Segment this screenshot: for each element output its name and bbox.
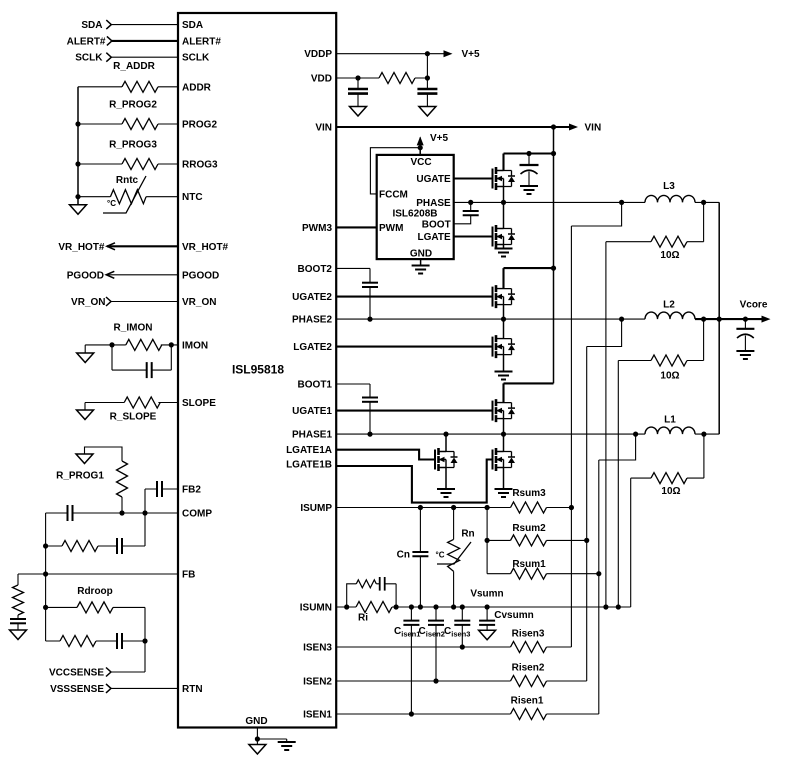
- resistor compensation Rc: [62, 541, 98, 552]
- svg-text:Cvsumn: Cvsumn: [494, 610, 533, 621]
- wire FB2: [145, 489, 178, 513]
- node junction phase2/FETs: [501, 317, 506, 322]
- resistor R_PROG2: [122, 119, 158, 130]
- arrow PGOOD: [106, 271, 114, 278]
- svg-text:ISUMP: ISUMP: [300, 503, 332, 514]
- wire ISUMP: [336, 507, 511, 509]
- connector VR_ON chevron: [106, 297, 111, 306]
- node junction phase3/FETs: [501, 200, 506, 205]
- svg-text:R_IMON: R_IMON: [114, 323, 153, 334]
- wire ISEN3: [336, 646, 571, 648]
- svg-text:UGATE1: UGATE1: [292, 406, 332, 417]
- wire ISEN2: [336, 680, 587, 682]
- node junction L2 input tap: [619, 317, 624, 322]
- capacitor Vcore bulk: [744, 319, 746, 329]
- transistor Q1B low-side B: [493, 448, 516, 471]
- wire phase1 sense tap: [599, 434, 636, 714]
- svg-text:SCLK: SCLK: [182, 53, 210, 64]
- node junction Vcore rail: [717, 317, 722, 322]
- svg-text:RTN: RTN: [182, 684, 203, 695]
- resistor 10ohm phase3: [606, 202, 704, 241]
- wire Rsum3 to phase3 sense: [547, 507, 572, 509]
- node junction IMON left: [109, 342, 114, 347]
- svg-text:ADDR: ADDR: [182, 82, 212, 93]
- node junction Vsumn/Cn: [418, 604, 423, 609]
- svg-text:GND: GND: [245, 716, 267, 727]
- svg-text:ISEN2: ISEN2: [303, 677, 332, 688]
- svg-text:°C: °C: [436, 551, 445, 560]
- resistor Rsum3: [511, 502, 547, 513]
- svg-text:GND: GND: [410, 249, 432, 260]
- wire PGOOD output: [106, 274, 178, 276]
- wire VR_ON input: [111, 301, 178, 303]
- wire Q2L drain to phase2: [503, 319, 505, 339]
- transistor Q2L phase2 low-side: [493, 335, 516, 358]
- svg-text:VR_HOT#: VR_HOT#: [182, 242, 229, 253]
- wire IMON net: [85, 345, 178, 353]
- wire VSSSENSE input to RTN: [111, 687, 178, 689]
- connector ALERT# input chevron: [107, 36, 112, 45]
- svg-text:L2: L2: [663, 300, 675, 311]
- node junction ISEN3/Cisen3: [460, 644, 465, 649]
- ground rail triangle: [77, 197, 79, 205]
- svg-text:PHASE2: PHASE2: [292, 315, 332, 326]
- capacitor bootstrap U2: [463, 211, 479, 215]
- svg-text:UGATE: UGATE: [416, 174, 451, 185]
- ground VDD right cap triangle: [419, 107, 436, 117]
- wire Q3H source to phase3: [503, 187, 505, 203]
- svg-text:10Ω: 10Ω: [660, 371, 679, 382]
- transistor Q3L phase3 low-side: [493, 225, 516, 248]
- resistor 10ohm phase1: [631, 434, 704, 478]
- svg-text:IMON: IMON: [182, 340, 208, 351]
- ground Q2L earth: [495, 372, 513, 380]
- svg-text:NTC: NTC: [182, 192, 203, 203]
- IC U1 ISL95818: [178, 13, 336, 728]
- wire Q2H drain to VIN: [504, 268, 554, 289]
- svg-text:VCC: VCC: [410, 157, 431, 168]
- node junction L3 output: [701, 200, 706, 205]
- svg-text:R_PROG3: R_PROG3: [109, 140, 157, 151]
- node junction VDD left: [355, 75, 360, 80]
- capacitor Cisen2: [435, 607, 437, 681]
- svg-text:Cn: Cn: [397, 550, 410, 561]
- resistor R_PROG1: [117, 461, 128, 497]
- wire Q1B drain to phase1: [503, 434, 505, 451]
- resistor Risen2: [511, 676, 547, 687]
- svg-text:SLOPE: SLOPE: [182, 398, 216, 409]
- node junction Rn/ISUMP: [451, 505, 456, 510]
- svg-text:COMP: COMP: [182, 509, 212, 520]
- wire VCCSENSE input: [111, 671, 145, 673]
- wire RROG3 to R_PROG3: [78, 163, 178, 165]
- svg-text:R_SLOPE: R_SLOPE: [110, 412, 157, 423]
- resistor Ri: [356, 602, 392, 613]
- node junction ISEN1/Cisen1: [409, 711, 414, 716]
- svg-text:ISL6208B: ISL6208B: [392, 208, 437, 219]
- capacitor bootstrap phase1: [362, 398, 378, 402]
- wire U2 GND stub: [420, 259, 422, 265]
- transistor Q1A low-side A: [435, 448, 458, 471]
- wire SCLK input: [111, 56, 178, 58]
- ground GND triangle: [249, 745, 266, 755]
- svg-text:Vsumn: Vsumn: [470, 589, 503, 600]
- capacitor COMP Cc1: [68, 505, 73, 521]
- node junction VIN rail: [551, 124, 556, 129]
- op-amp U2 ISL6208B driver box: [377, 155, 454, 259]
- svg-text:Ri: Ri: [358, 613, 368, 624]
- wire UGATE2: [336, 296, 493, 298]
- node junction R_PROG1/COMP: [119, 510, 124, 515]
- node junction branch/ISUMP: [485, 505, 490, 510]
- svg-text:LGATE1B: LGATE1B: [286, 460, 332, 471]
- thermistor Rn: [453, 508, 455, 608]
- capacitor droop branch2: [117, 633, 122, 649]
- droop branch2 R-C: [46, 640, 145, 642]
- wire Rdroop branch: [46, 607, 145, 672]
- ground R_PROG1 triangle: [76, 454, 93, 464]
- svg-text:VR_HOT#: VR_HOT#: [58, 242, 105, 253]
- svg-text:BOOT: BOOT: [422, 219, 451, 230]
- svg-text:R_PROG2: R_PROG2: [109, 100, 157, 111]
- compensation branch R-C on COMP: [46, 513, 145, 546]
- ISUMN parallel R-C branch: [347, 584, 396, 607]
- node junction Vsumn/Cvsumn: [485, 604, 490, 609]
- wire Q1A drain to phase1: [445, 434, 447, 451]
- wire PWM3: [336, 226, 377, 228]
- wire phase3 sense tap: [571, 202, 621, 647]
- node junction Vsumn/Cisen1: [409, 604, 414, 609]
- node junction FCCM/VCC: [418, 145, 423, 150]
- svg-text:PWM: PWM: [379, 223, 403, 234]
- transistor Q2H phase2 high-side: [493, 285, 516, 308]
- wire BOOT2: [336, 268, 370, 319]
- ground Vcore cap earth: [736, 351, 754, 359]
- svg-text:Rsum2: Rsum2: [512, 523, 546, 534]
- capacitor ISUMN branch: [380, 577, 385, 591]
- node junction L3 input tap: [619, 200, 624, 205]
- wire Vcore rail vertical: [718, 202, 720, 434]
- wire ADDR to R_ADDR: [78, 86, 178, 88]
- wire 10ohm1 to Vsumn vertical: [630, 478, 632, 607]
- svg-text:FB: FB: [182, 570, 195, 581]
- svg-text:VDDP: VDDP: [304, 49, 332, 60]
- ground Q1A earth: [437, 489, 455, 497]
- node junction Rsum3/sense3: [569, 505, 574, 510]
- wire Q3H drain to VIN: [504, 154, 554, 171]
- thermistor Rntc: [110, 190, 146, 204]
- svg-text:FB2: FB2: [182, 485, 201, 496]
- svg-text:VIN: VIN: [315, 123, 332, 134]
- capacitor IMON filter: [112, 345, 171, 370]
- node junction branch2 right: [142, 638, 147, 643]
- node junction Ri branch right: [394, 604, 399, 609]
- wire Q2H source to phase2: [503, 305, 505, 320]
- wire PHASE3 node: [454, 201, 645, 203]
- wire R_PROG1 top to ground: [85, 447, 123, 461]
- wire Q1B source to ground: [503, 468, 505, 489]
- svg-text:BOOT2: BOOT2: [298, 264, 333, 275]
- svg-text:RROG3: RROG3: [182, 160, 218, 171]
- wire LGATE1A: [336, 450, 435, 460]
- node junction comp branch left: [43, 543, 48, 548]
- wire 10ohm2 to Vsumn vertical: [617, 361, 619, 608]
- svg-text:Risen3: Risen3: [512, 629, 545, 640]
- wire LGATE1B: [336, 460, 493, 503]
- node junction Vsumn/Cisen3: [460, 604, 465, 609]
- wire SDA input: [111, 24, 178, 26]
- node junction Vsumn/10ohm2: [616, 604, 621, 609]
- resistor R_PROG3: [122, 159, 158, 170]
- svg-text:L3: L3: [663, 181, 675, 192]
- svg-text:10Ω: 10Ω: [661, 486, 680, 497]
- svg-text:VR_ON: VR_ON: [71, 297, 105, 308]
- node junction boot2/phase2: [367, 317, 372, 322]
- resistor R_IMON: [126, 339, 162, 350]
- wire Vcore output: [695, 318, 763, 320]
- capacitor VDD right: [417, 89, 437, 94]
- resistor Risen1: [511, 709, 547, 720]
- wire ISEN1: [336, 713, 599, 715]
- wire Q1A source to ground: [445, 468, 447, 489]
- ground GND earth: [278, 742, 296, 750]
- resistor R_SLOPE: [124, 397, 160, 408]
- wire PHASE2 node: [336, 318, 645, 320]
- svg-text:VSSSENSE: VSSSENSE: [50, 684, 104, 695]
- svg-text:PGOOD: PGOOD: [67, 270, 104, 281]
- svg-text:10Ω: 10Ω: [660, 250, 679, 261]
- resistor Rsum1: [487, 573, 599, 575]
- node junction VDD right: [425, 75, 430, 80]
- svg-text:VIN: VIN: [585, 123, 602, 134]
- wire PROG2 to R_PROG2: [78, 123, 178, 125]
- resistor FB divider: [13, 585, 24, 615]
- connector VCCSENSE chevron: [106, 668, 111, 677]
- svg-text:Rdroop: Rdroop: [77, 586, 113, 597]
- node junction branch/Rsum2: [485, 538, 490, 543]
- IC U1 right pin name labels: [286, 49, 332, 720]
- arrow V+5 up: [417, 136, 424, 145]
- wire VR_HOT# output: [107, 245, 178, 247]
- wire VIN: [336, 126, 570, 128]
- capacitor compensation Cc2: [117, 538, 122, 554]
- node junction rail/NTC: [75, 194, 80, 199]
- resistor VDD filter: [379, 73, 415, 84]
- ground VIN cap earth: [520, 186, 538, 194]
- resistor Rsum2: [487, 539, 587, 541]
- connector SDA input chevron: [106, 20, 111, 29]
- svg-text:LGATE: LGATE: [418, 232, 451, 243]
- svg-text:SDA: SDA: [182, 20, 203, 31]
- svg-text:VR_ON: VR_ON: [182, 297, 216, 308]
- wire GND bottom stub: [257, 728, 286, 745]
- node junction boot1/phase1: [367, 432, 372, 437]
- wire L3 output: [695, 201, 719, 203]
- connector VSSSENSE chevron: [106, 684, 111, 693]
- svg-text:LGATE2: LGATE2: [293, 342, 332, 353]
- wire L1 output: [695, 433, 719, 435]
- svg-text:V+5: V+5: [430, 133, 449, 144]
- capacitor FB2: [157, 481, 162, 497]
- wire NTC to Rntc: [78, 196, 178, 198]
- wire UGATE1: [336, 410, 493, 412]
- node junction Rsum1/sense1: [596, 571, 601, 576]
- node junction Vsumn/10ohm3: [603, 604, 608, 609]
- wire VDD: [336, 54, 427, 89]
- wire ISUMN / Vsumn: [336, 606, 631, 608]
- ground U2 earth: [412, 266, 430, 274]
- svg-text:VCCSENSE: VCCSENSE: [49, 668, 104, 679]
- wire VDDP to V+5: [336, 53, 445, 55]
- wire U2 BOOT to bootstrap cap: [454, 202, 471, 223]
- arrow VIN: [569, 124, 578, 131]
- node junction VDDP/VDD filter: [425, 51, 430, 56]
- node junction L1 input tap: [633, 432, 638, 437]
- wire FCCM tie to VCC: [370, 148, 420, 194]
- svg-text:Rntc: Rntc: [116, 175, 139, 186]
- wire R_PROG1 bottom to COMP: [121, 497, 123, 513]
- capacitor bootstrap phase2: [362, 283, 378, 287]
- node junction ISEN2/Cisen2: [433, 678, 438, 683]
- inductor L3: [645, 195, 695, 202]
- wire Q3L drain to phase3: [503, 202, 505, 228]
- wire U2 UGATE to Q3H gate: [454, 177, 493, 179]
- svg-text:SCLK: SCLK: [75, 53, 103, 64]
- svg-text:ALERT#: ALERT#: [182, 36, 221, 47]
- resistor Risen3: [511, 642, 547, 653]
- svg-text:R_ADDR: R_ADDR: [113, 61, 155, 72]
- capacitor VIN bulk phase3: [528, 154, 530, 166]
- node junction VIN rail drain3: [551, 151, 556, 156]
- node junction L1 output: [701, 432, 706, 437]
- connector SCLK input chevron: [106, 53, 111, 62]
- node junction phase1/Q1H: [501, 432, 506, 437]
- wire FB: [18, 574, 178, 585]
- wire COMP: [46, 513, 178, 641]
- node junction L2 output: [701, 317, 706, 322]
- node junction VIN rail drain2: [551, 266, 556, 271]
- node junction Q3H drain cap: [526, 151, 531, 156]
- capacitor Cvsumn: [486, 607, 488, 630]
- wire PHASE1 node: [336, 433, 645, 435]
- ground SLOPE triangle: [77, 410, 94, 420]
- node junction Rsum2/sense2: [584, 538, 589, 543]
- wire U2 LGATE to Q3L gate: [454, 235, 493, 237]
- wire 10ohm3 to Vsumn vertical: [605, 242, 607, 607]
- arrow Vcore: [762, 316, 771, 323]
- wire VIN vertical rail: [553, 127, 555, 383]
- svg-text:FCCM: FCCM: [379, 189, 408, 200]
- svg-text:LGATE1A: LGATE1A: [286, 445, 332, 456]
- wire BOOT1: [336, 384, 370, 434]
- svg-text:PGOOD: PGOOD: [182, 270, 219, 281]
- svg-text:ISEN1: ISEN1: [303, 710, 332, 721]
- node junction GND: [255, 736, 260, 741]
- svg-text:BOOT1: BOOT1: [298, 380, 333, 391]
- node junction boot cap/phase3: [468, 200, 473, 205]
- ground FB triangle: [10, 630, 27, 640]
- node junction Ri branch left: [344, 604, 349, 609]
- resistor 10ohm phase2: [618, 319, 703, 360]
- ground VDD left cap triangle: [350, 107, 367, 117]
- svg-text:°C: °C: [107, 199, 116, 208]
- resistor droop branch2: [60, 636, 96, 647]
- svg-text:PHASE1: PHASE1: [292, 430, 332, 441]
- svg-text:R_PROG1: R_PROG1: [56, 471, 104, 482]
- IC U1 left pin name labels: [182, 20, 229, 695]
- svg-text:UGATE2: UGATE2: [292, 292, 332, 303]
- wire Rsum2/Rsum1 branch vertical: [486, 508, 488, 574]
- wire left pull-down rail: [77, 87, 79, 197]
- node junction rail/PROG2: [75, 121, 80, 126]
- svg-text:ISEN3: ISEN3: [303, 643, 332, 654]
- ground IMON triangle: [77, 353, 94, 363]
- resistor ISUMN branch: [356, 580, 376, 588]
- node junction phase1/Q1A: [443, 432, 448, 437]
- capacitor FB to ground: [17, 615, 19, 619]
- inductor L1: [645, 427, 695, 434]
- node junction FB2/COMP: [142, 510, 147, 515]
- capacitor Cisen1: [410, 607, 412, 714]
- node junction rail/RROG3: [75, 161, 80, 166]
- svg-text:ISUMN: ISUMN: [300, 603, 332, 614]
- node junction Rdroop left: [43, 605, 48, 610]
- ground Q1B earth: [495, 489, 513, 497]
- svg-text:V+5: V+5: [462, 49, 481, 60]
- svg-text:Rn: Rn: [461, 529, 474, 540]
- arrow V+5 VDDP: [444, 50, 453, 57]
- arrow VR_HOT#: [107, 243, 115, 250]
- capacitor Cisen3: [461, 607, 463, 647]
- node junction FB/rail: [43, 571, 48, 576]
- svg-text:ALERT#: ALERT#: [67, 36, 106, 47]
- resistor Rdroop: [77, 602, 113, 613]
- ground Q3L earth: [495, 249, 513, 257]
- svg-text:L1: L1: [664, 415, 676, 426]
- transistor Q1H phase1 high-side: [493, 399, 516, 422]
- capacitor VDD left: [357, 78, 359, 89]
- node junction IMON right: [169, 342, 174, 347]
- wire Q1H drain to VIN: [504, 383, 554, 402]
- wire U2 VCC to V+5: [419, 138, 421, 155]
- ground Cvsumn triangle: [479, 630, 496, 640]
- svg-text:Rsum3: Rsum3: [512, 488, 546, 499]
- node junction Vsumn/Cisen2: [433, 604, 438, 609]
- node junction Vsumn/Rn: [451, 604, 456, 609]
- svg-text:Vcore: Vcore: [740, 300, 768, 311]
- transistor Q3H phase3 high-side: [493, 167, 516, 190]
- wire LGATE2: [336, 346, 493, 348]
- inductor L2: [645, 312, 695, 319]
- capacitor Cn: [419, 508, 421, 608]
- wire Q3L source to ground: [503, 245, 505, 249]
- svg-text:PWM3: PWM3: [302, 223, 332, 234]
- svg-text:SDA: SDA: [81, 20, 102, 31]
- wire ALERT# input: [112, 40, 178, 42]
- node junction Cn/ISUMP: [418, 505, 423, 510]
- node junction Vcore cap tap: [743, 317, 748, 322]
- wire Q2L source to ground: [503, 355, 505, 371]
- wire SLOPE net: [85, 403, 178, 411]
- svg-text:Risen1: Risen1: [511, 696, 544, 707]
- svg-text:VDD: VDD: [311, 74, 332, 85]
- svg-text:PHASE: PHASE: [416, 198, 451, 209]
- wire Q1H source to phase1: [503, 419, 505, 435]
- wire phase2 sense tap: [587, 319, 622, 681]
- svg-text:Rsum1: Rsum1: [512, 559, 546, 570]
- svg-text:Risen2: Risen2: [512, 663, 545, 674]
- resistor R_ADDR: [122, 81, 158, 92]
